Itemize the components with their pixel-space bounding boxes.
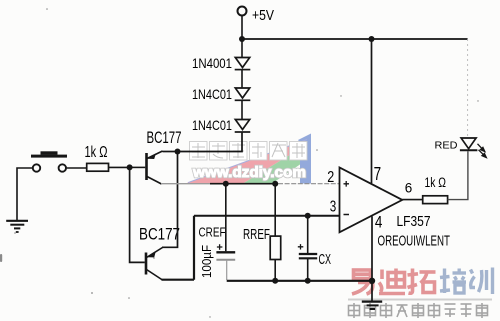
CREF top lead	[225, 184, 227, 252]
node CX bottom junction	[305, 278, 311, 284]
diode D1 1N4001	[235, 58, 251, 70]
char xun	[471, 268, 493, 295]
diode D3 1N4C01	[235, 120, 251, 133]
wire D3 down and left to Q1 emitter	[178, 132, 243, 152]
watermark gray slogan glyphs	[349, 303, 488, 318]
CREF bottom lead (faint)	[226, 260, 228, 280]
CREF top plate	[216, 251, 235, 253]
transistor Q1 BC177	[147, 129, 182, 184]
wire pin4 to ground	[371, 281, 373, 301]
RREF top lead	[274, 184, 276, 236]
svg-text:CREF: CREF	[199, 225, 226, 240]
watermark dzdiy colored background	[184, 134, 311, 185]
node supply junction	[239, 36, 245, 42]
svg-text:RED: RED	[435, 140, 458, 152]
wire switch to ground	[17, 168, 32, 220]
ground left	[6, 221, 28, 232]
wire ground rail	[227, 280, 372, 282]
wire base node to Q1 base	[130, 166, 146, 168]
op-amp plus sign	[344, 181, 350, 187]
RREF bottom lead	[274, 260, 276, 282]
resistor RREF	[243, 184, 281, 281]
wire emitter junction down to Q2 emitter	[162, 152, 178, 248]
CREF plus sign	[217, 244, 223, 249]
wire noninverting input line (pin3)	[194, 215, 340, 217]
Q2 emitter with arrow	[147, 248, 163, 258]
wire rail to D1	[241, 39, 243, 58]
Q2 collector	[147, 270, 163, 281]
wire Q2 collector to node B riser	[162, 279, 195, 281]
node CX top junction	[305, 213, 311, 219]
svg-text:1N4C01: 1N4C01	[192, 86, 232, 102]
svg-text:www.dzdiy.com: www.dzdiy.com	[192, 164, 306, 181]
pin 7 wire	[371, 39, 373, 183]
pin 4 wire	[371, 216, 373, 280]
switch S1 pushbutton	[31, 151, 67, 171]
node pin4 ground junction	[369, 278, 375, 284]
CX top lead	[307, 216, 309, 253]
switch actuator bar	[31, 155, 67, 158]
wire node B riser	[193, 216, 195, 280]
node CREF top junction	[223, 181, 229, 187]
wire base node down to Q2 base	[130, 167, 145, 262]
node pin7 junction	[369, 36, 375, 42]
resistor R1 1k	[87, 163, 109, 171]
CX bottom plate	[299, 257, 317, 259]
svg-text:2: 2	[327, 169, 334, 186]
LED D4 RED	[435, 138, 487, 158]
wire inverting input line (pin2)	[210, 183, 278, 185]
wire terminal to rail	[241, 16, 243, 40]
wire +5V rail	[242, 38, 468, 40]
Q1 base bar	[145, 153, 148, 180]
watermark dzdiy CJK glyph blocks	[190, 142, 308, 161]
CX top plate	[299, 253, 317, 255]
svg-text:OREOUIWLENT: OREOUIWLENT	[378, 233, 451, 250]
CREF bottom plate (faint)	[216, 259, 235, 261]
op-amp minus sign	[344, 214, 350, 216]
char tuo	[408, 269, 436, 294]
wire D1-D2	[241, 70, 243, 88]
op-amp U1 LF357	[327, 39, 450, 281]
wire R1 to base node	[109, 166, 130, 168]
svg-text:1k Ω: 1k Ω	[85, 144, 108, 161]
svg-text:LF357: LF357	[397, 213, 431, 230]
node RREF top junction	[272, 181, 278, 187]
svg-text:1k Ω: 1k Ω	[425, 175, 447, 190]
op-amp triangle	[340, 168, 403, 233]
wire switch to R1	[67, 167, 87, 169]
svg-text:6: 6	[405, 180, 413, 195]
diode D2 1N4C01	[235, 88, 251, 100]
svg-text:BC177: BC177	[139, 225, 180, 244]
wire inverting input line faint segment (pin2)	[161, 183, 212, 185]
svg-text:7: 7	[374, 163, 382, 184]
node emitter junction	[175, 149, 181, 155]
capacitor CREF	[199, 184, 236, 280]
transistor Q2 BC177	[139, 225, 180, 281]
switch left contact	[33, 164, 40, 171]
svg-text:1N4001: 1N4001	[192, 55, 232, 71]
char di	[379, 269, 405, 294]
watermark underline	[348, 299, 492, 301]
svg-text:CX: CX	[319, 251, 332, 268]
svg-text:RREF: RREF	[243, 227, 270, 243]
Q1 emitter with arrow	[147, 151, 163, 159]
char pei	[440, 269, 466, 294]
wire R2 to LED	[448, 151, 468, 199]
svg-text:BC177: BC177	[147, 129, 182, 147]
svg-text:3: 3	[330, 199, 337, 216]
CX bottom lead	[307, 258, 309, 281]
ground right	[362, 302, 382, 309]
node base junction	[127, 164, 133, 170]
wire op-amp output to R2	[402, 199, 422, 201]
LED triangle	[461, 138, 476, 149]
Q1 emitter wire	[163, 151, 179, 153]
wire D2-D3	[241, 100, 243, 119]
watermark peixun blue CJK glyphs	[440, 268, 493, 295]
switch right contact	[59, 164, 66, 171]
CX plus sign	[298, 244, 304, 249]
node RREF bottom junction	[272, 278, 278, 284]
LED emission arrows	[478, 144, 487, 158]
RREF body	[270, 236, 281, 259]
LED cathode bar	[460, 149, 478, 151]
char yi	[352, 270, 373, 294]
watermark yiditop red CJK glyphs	[352, 269, 436, 295]
resistor R2 1k	[423, 196, 448, 204]
svg-text:+5V: +5V	[252, 7, 274, 24]
Q2 base bar	[145, 253, 148, 275]
Q1 collector	[147, 177, 162, 185]
wire rail to LED (faint)	[467, 39, 469, 137]
svg-text:1N4C01: 1N4C01	[192, 117, 232, 133]
+5V terminal circle	[238, 7, 247, 16]
svg-text:100µF: 100µF	[199, 245, 214, 278]
capacitor CX	[298, 216, 331, 281]
svg-text:4: 4	[375, 212, 383, 231]
wire pin2 faint right segment	[278, 183, 340, 185]
